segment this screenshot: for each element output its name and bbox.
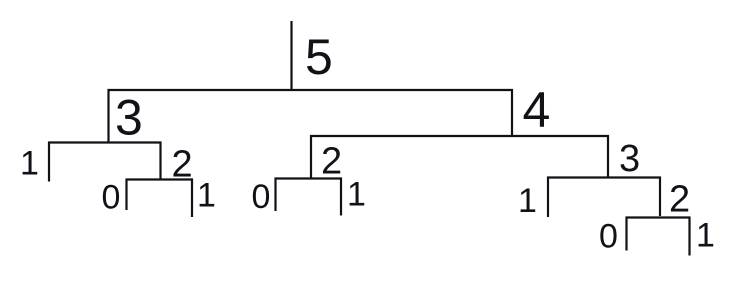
- svg-text:3: 3: [619, 138, 640, 180]
- wire node-3 vertical: [107, 89, 109, 144]
- svg-text:2: 2: [669, 179, 690, 221]
- wire node-2 left vertical: [159, 142, 161, 181]
- wire node-2 middle vertical: [310, 135, 312, 180]
- wire leaf-1 middle vertical: [340, 178, 342, 216]
- wire root vertical: [290, 21, 292, 91]
- wire leaf-1 rightmost vertical: [688, 217, 690, 256]
- wire leaf-0 left vertical: [125, 179, 127, 211]
- svg-text:4: 4: [523, 82, 551, 138]
- wire node-3 right vertical: [607, 135, 609, 179]
- wire node-4 vertical: [511, 89, 513, 136]
- svg-text:0: 0: [102, 179, 121, 217]
- wire level-4 horizontal: [626, 216, 691, 218]
- svg-text:2: 2: [172, 144, 193, 186]
- svg-text:5: 5: [305, 29, 333, 85]
- wire leaf-1 left vertical: [48, 142, 50, 182]
- wire leaf-0 middle vertical: [274, 178, 276, 212]
- wire level-3 left horizontal: [126, 178, 194, 180]
- wire leaf-1 left-sub vertical: [191, 179, 193, 218]
- wire leaf-1 right vertical: [547, 177, 549, 218]
- svg-text:1: 1: [518, 182, 537, 220]
- svg-text:2: 2: [321, 141, 342, 183]
- wire level-2 left horizontal: [48, 141, 162, 143]
- svg-text:3: 3: [115, 90, 143, 146]
- wire level-1 horizontal: [108, 89, 514, 91]
- wire leaf-0 right vertical: [625, 217, 627, 251]
- svg-text:1: 1: [20, 145, 39, 183]
- svg-text:1: 1: [347, 176, 366, 214]
- wire node-2 right vertical: [659, 177, 661, 217]
- svg-text:1: 1: [197, 177, 216, 215]
- wire level-2 right horizontal: [310, 135, 609, 137]
- svg-text:1: 1: [696, 217, 715, 255]
- svg-text:0: 0: [599, 218, 618, 256]
- wire level-3 right horizontal: [547, 176, 661, 178]
- wire level-3 middle horizontal: [275, 177, 343, 179]
- svg-text:0: 0: [252, 178, 271, 216]
